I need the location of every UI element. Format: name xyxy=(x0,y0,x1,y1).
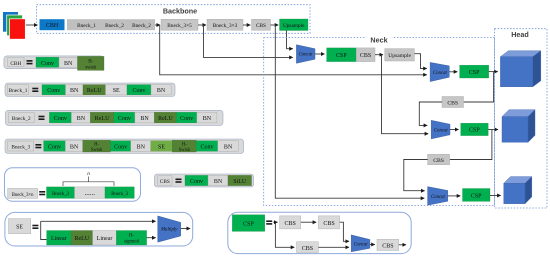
wire Bneck group to Bneck_3x5 xyxy=(155,24,160,26)
legend B2 BN xyxy=(71,112,90,123)
svg-text:n: n xyxy=(87,171,90,177)
svg-text:ReLU: ReLU xyxy=(95,116,110,122)
svg-text:Neck: Neck xyxy=(370,35,387,44)
svg-text:Conv: Conv xyxy=(200,145,213,151)
svg-text:CBS: CBS xyxy=(360,53,371,59)
svg-text:ReLU: ReLU xyxy=(158,116,173,122)
svg-text:Upsample: Upsample xyxy=(388,53,411,59)
wire Concat to CBSd xyxy=(370,244,375,246)
legend CSP CBSb xyxy=(318,216,339,229)
box Upsample1 green xyxy=(280,19,309,31)
svg-text:Linear: Linear xyxy=(97,236,113,242)
wire Concat1 to CSP1 xyxy=(315,53,325,55)
wire D1 Bneck junction to Concat2 lower xyxy=(160,25,427,75)
wire SE bottom branch xyxy=(41,221,47,239)
cube1 right face xyxy=(533,51,541,87)
legend CBS Conv xyxy=(185,175,208,185)
legend B2 ReLU xyxy=(90,112,114,123)
legend CSP CBSc xyxy=(297,242,319,253)
legend CBH box xyxy=(8,58,24,67)
svg-text:BN: BN xyxy=(214,179,223,185)
wire CSP4 to head cube3 xyxy=(490,195,501,197)
svg-text:Linear: Linear xyxy=(51,236,67,242)
legend B2 ReLU2 xyxy=(154,112,176,123)
svg-text:CBS: CBS xyxy=(382,244,393,250)
legend row Bneck_3 container xyxy=(5,139,244,154)
svg-text:BN: BN xyxy=(224,145,233,151)
svg-text:Conv: Conv xyxy=(48,145,61,151)
svg-text:Swish: Swish xyxy=(179,148,191,153)
svg-text:CBS: CBS xyxy=(256,23,266,29)
wire Concat4 to CSP4 xyxy=(448,195,461,197)
legend row CBH container xyxy=(4,56,104,69)
cube2 top face xyxy=(502,110,535,117)
svg-text:Conv: Conv xyxy=(118,116,131,122)
wire CBSc to Concat xyxy=(318,246,349,248)
svg-text:Bneck_3: Bneck_3 xyxy=(52,192,69,197)
wire SE top path xyxy=(41,220,156,222)
legend B3 Conv2 xyxy=(111,141,131,152)
wire CBSa to CBSb xyxy=(301,221,316,223)
svg-text:ReLU: ReLU xyxy=(74,236,89,242)
legend B3 Conv xyxy=(44,141,66,152)
svg-text:Bneck_3: Bneck_3 xyxy=(111,192,128,197)
box CBS backbone xyxy=(252,19,271,30)
neck dashed box xyxy=(264,38,495,206)
concat U4 trapezoid xyxy=(428,187,448,206)
input image green square xyxy=(7,15,23,36)
legend B2 Conv3 xyxy=(176,112,197,123)
svg-text:Conv: Conv xyxy=(47,88,60,94)
equals Bneck_3 xyxy=(35,144,41,146)
box CSP1 xyxy=(327,48,357,62)
wire CSP2 to head cube1 xyxy=(489,71,498,73)
svg-text:Bneck_3×3: Bneck_3×3 xyxy=(213,23,238,29)
svg-text:Bneck_3×n: Bneck_3×n xyxy=(12,193,34,198)
legend Bneck_3 green1 xyxy=(47,187,75,199)
svg-text:Concat: Concat xyxy=(354,243,369,248)
wire CBSb to Concat xyxy=(340,222,349,241)
wire Concat2 to CSP2 xyxy=(449,71,457,73)
svg-text:Swish: Swish xyxy=(91,148,103,153)
svg-text:SE: SE xyxy=(16,224,23,230)
svg-text:SE: SE xyxy=(158,145,165,151)
svg-text:CBH: CBH xyxy=(46,23,59,29)
svg-text:H-: H- xyxy=(182,143,187,148)
svg-text:CBS: CBS xyxy=(285,221,296,227)
svg-text:Backbone: Backbone xyxy=(163,6,197,15)
legend B3 BN xyxy=(65,141,82,152)
legend SE Linear2 xyxy=(93,231,117,246)
legend row Bneck_2 container xyxy=(5,110,223,125)
legend B2 BN2 xyxy=(135,112,155,123)
bar Bneck group xyxy=(67,19,155,30)
svg-text:Upsample: Upsample xyxy=(283,23,305,29)
legend B1 SE xyxy=(106,85,128,95)
svg-text:sigmoid: sigmoid xyxy=(124,240,140,245)
svg-text:BN: BN xyxy=(70,145,79,151)
equals Bneck_3xn xyxy=(39,191,45,193)
backbone dashed box xyxy=(37,5,311,34)
legend SE ReLU xyxy=(71,231,93,246)
box CSP2 xyxy=(460,65,489,78)
legend CSP box xyxy=(232,215,264,232)
legend SE H-sigmoid xyxy=(116,231,146,246)
svg-text:CSP: CSP xyxy=(469,128,480,134)
svg-text:Concat: Concat xyxy=(299,53,314,58)
svg-text:Conv: Conv xyxy=(114,145,127,151)
bracket n xyxy=(63,177,114,187)
legend SE Linear1 xyxy=(47,231,72,246)
svg-text:CSP: CSP xyxy=(471,193,482,199)
svg-text:Conv: Conv xyxy=(190,179,203,185)
svg-text:CBS: CBS xyxy=(447,101,458,107)
wire CBS to Upsample xyxy=(271,24,279,26)
svg-text:BN: BN xyxy=(77,116,86,122)
legend Bneck_3 box xyxy=(8,141,34,151)
svg-text:Bneck_3: Bneck_3 xyxy=(11,144,30,150)
legend CBS SiLU xyxy=(228,175,252,185)
legend B2 BN3 xyxy=(197,112,217,123)
box CSP4 xyxy=(463,189,491,202)
legend B3 BN2 xyxy=(131,141,151,152)
svg-text:Bneck_2: Bneck_2 xyxy=(105,23,124,29)
svg-text:CBS: CBS xyxy=(160,179,170,185)
svg-text:BN: BN xyxy=(70,88,79,94)
cube3 front face xyxy=(504,183,525,203)
legend B3 SE xyxy=(151,141,173,152)
legend B3 H-Swish2 xyxy=(172,140,196,152)
legend Bneck_2 box xyxy=(8,113,34,123)
cube1 top face xyxy=(500,51,540,57)
equals Bneck_1 xyxy=(32,88,38,90)
legend CBH Conv xyxy=(36,57,59,67)
legend CSP CBSa xyxy=(280,216,301,229)
legend dots box xyxy=(75,187,106,199)
box Bneck_3x5 xyxy=(161,19,198,30)
legend row Bneck_1 container xyxy=(5,83,175,97)
multiply trapezoid xyxy=(158,216,181,242)
box Bneck_3x3 xyxy=(207,19,243,30)
legend Bneck_3 green2 xyxy=(105,187,134,199)
wire Multiply out xyxy=(181,228,190,230)
head dashed box xyxy=(495,29,547,208)
svg-text:CSP: CSP xyxy=(336,53,347,59)
legend B3 BN3 xyxy=(218,141,239,152)
box Upsample2 xyxy=(385,49,415,61)
equals CBS xyxy=(176,179,182,181)
wire CBS1 to Upsample2 xyxy=(375,54,383,56)
svg-text:Bneck_1: Bneck_1 xyxy=(9,88,28,94)
legend B1 Conv2 xyxy=(127,85,151,95)
wire CSP2 branch down to CBS3 xyxy=(464,72,494,102)
legend B3 Conv3 xyxy=(196,141,218,152)
equals CSP xyxy=(266,220,272,222)
svg-text:BN: BN xyxy=(157,88,166,94)
svg-text:CBH: CBH xyxy=(10,61,21,67)
svg-text:......: ...... xyxy=(84,189,95,197)
legend B2 Conv xyxy=(49,112,71,123)
concat legend trapezoid xyxy=(351,235,370,252)
cube2 right face xyxy=(528,110,535,143)
svg-text:Bneck_2: Bneck_2 xyxy=(12,116,31,122)
legend CBH BN xyxy=(59,57,78,67)
svg-text:Bneck_2: Bneck_2 xyxy=(132,23,151,29)
equals Bneck_2 xyxy=(39,116,45,118)
legend CBS container xyxy=(154,174,253,187)
svg-text:Bneck_3×5: Bneck_3×5 xyxy=(167,23,192,29)
legend Bneck_3xn box xyxy=(8,188,38,198)
svg-text:swish: swish xyxy=(85,65,96,70)
svg-text:BN: BN xyxy=(203,116,212,122)
concat U1 trapezoid xyxy=(296,45,315,64)
svg-text:BN: BN xyxy=(137,145,146,151)
concat U3 trapezoid xyxy=(431,120,450,139)
cube2 front face xyxy=(502,117,528,143)
legend B2 Conv2 xyxy=(114,112,135,123)
svg-text:Concat: Concat xyxy=(431,195,446,200)
legend CBH H-swish xyxy=(78,56,105,70)
svg-text:SiLU: SiLU xyxy=(233,179,247,185)
wire D4 Upsample down to Concat1 upper xyxy=(287,31,293,49)
svg-text:Conv: Conv xyxy=(41,61,54,67)
svg-text:Multiply: Multiply xyxy=(160,228,178,233)
legend B1 Conv xyxy=(42,85,66,95)
legend CBS BN xyxy=(208,175,228,185)
legend B1 ReLU xyxy=(83,85,106,95)
wire Bneck_3x5 to Bneck_3x3 xyxy=(198,24,206,26)
neck label xyxy=(366,35,392,44)
svg-text:Concat: Concat xyxy=(434,128,449,133)
cube3 right face xyxy=(525,177,532,204)
box CBS1 neck xyxy=(356,48,375,62)
svg-text:Head: Head xyxy=(511,30,529,39)
concat U2 trapezoid xyxy=(430,62,449,81)
legend SE box xyxy=(9,219,31,234)
equals CBH xyxy=(27,60,33,62)
legend SE outer xyxy=(5,212,193,246)
wire CSP3 to head cube2 xyxy=(488,129,498,131)
equals SE xyxy=(32,225,38,227)
svg-text:BN: BN xyxy=(140,116,149,122)
svg-text:H-: H- xyxy=(129,234,134,239)
wire CSP3 branch down to CBS4 xyxy=(450,130,492,160)
wire into CBS a xyxy=(275,221,277,223)
wire Concat3 to CSP3 xyxy=(450,129,459,131)
wire D3 CBS junction to Concat4 lower xyxy=(275,25,424,198)
svg-text:CBS: CBS xyxy=(302,246,313,252)
svg-text:BN: BN xyxy=(64,61,73,67)
box CBS4 xyxy=(428,154,450,164)
wire H-sigmoid to Multiply xyxy=(147,237,156,239)
svg-text:Bneck_1: Bneck_1 xyxy=(77,23,96,29)
svg-text:CSP: CSP xyxy=(469,70,480,76)
legend Bneck_3xn outer xyxy=(5,168,141,202)
legend CSP CBSd xyxy=(377,239,399,250)
wire CSP split xyxy=(273,222,294,247)
wire CBS3 to Concat3 upper xyxy=(419,102,442,125)
svg-text:Conv: Conv xyxy=(132,88,145,94)
wire CBS4 to Concat4 upper xyxy=(404,160,428,191)
wire D5 junction to Concat3 lower xyxy=(382,55,429,134)
cube1 front face xyxy=(500,57,532,87)
svg-text:Concat: Concat xyxy=(433,71,448,76)
wire Upsample2 to Concat2 upper xyxy=(414,54,426,69)
svg-text:H-: H- xyxy=(88,59,93,64)
cube3 top face xyxy=(504,177,532,184)
svg-text:CBS: CBS xyxy=(433,158,444,164)
legend B3 H-Swish xyxy=(83,140,111,152)
svg-text:CSP: CSP xyxy=(243,221,254,227)
wire CBSd out xyxy=(399,244,406,246)
svg-text:H-: H- xyxy=(94,143,99,148)
legend CBS box xyxy=(158,176,172,185)
box CSP3 xyxy=(461,123,489,135)
wire D2 Bneck_3x5 junction to Concat1 lower xyxy=(204,25,293,57)
legend CSP outer xyxy=(228,212,411,253)
svg-text:CBS: CBS xyxy=(323,221,334,227)
wire Bneck_3x3 to CBS xyxy=(243,24,250,26)
legend B1 BN2 xyxy=(151,85,171,95)
svg-text:ReLU: ReLU xyxy=(87,88,102,94)
input image red square xyxy=(10,19,26,39)
box CBS3 xyxy=(442,97,464,108)
svg-text:Conv: Conv xyxy=(54,116,67,122)
box CBH (backbone) xyxy=(40,19,65,30)
legend Bneck_1 box xyxy=(7,85,28,95)
svg-text:SE: SE xyxy=(113,88,120,94)
legend B1 BN xyxy=(66,85,84,95)
input image blue square xyxy=(3,12,18,32)
svg-text:Conv: Conv xyxy=(180,116,193,122)
wire input to CBH xyxy=(26,24,38,26)
